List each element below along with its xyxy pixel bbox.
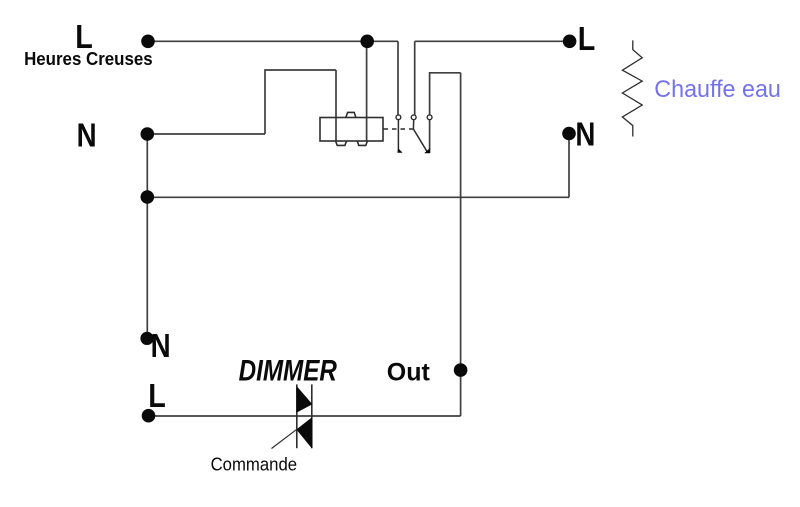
label Commande	[211, 454, 298, 475]
svg-text:Commande: Commande	[211, 454, 298, 475]
node dot L right	[563, 35, 577, 49]
relay coil bottom tab left	[336, 141, 347, 145]
label Heures Creuses	[24, 48, 153, 69]
wire Out vertical	[460, 73, 462, 416]
contact blade 2 (thrown)	[413, 120, 427, 152]
wire bottom L to triac	[149, 415, 297, 417]
label L right	[578, 20, 596, 57]
contact circle 2	[411, 115, 416, 120]
label DIMMER	[239, 354, 338, 387]
node dot Out	[454, 363, 468, 377]
svg-text:DIMMER: DIMMER	[239, 354, 338, 387]
wire contact 3 up jog	[430, 73, 461, 115]
svg-text:Chauffe eau: Chauffe eau	[654, 76, 781, 104]
triac lower triangle	[296, 417, 312, 448]
gate wire Commande	[272, 429, 297, 448]
relay coil bottom tab right	[357, 141, 367, 145]
label Chauffe eau	[654, 76, 781, 104]
node dot L top-left	[141, 35, 155, 49]
label L bottom-left	[148, 377, 166, 414]
mechanical link dashed	[384, 128, 414, 130]
wire L top-left horizontal	[148, 40, 398, 42]
label L top-left	[75, 18, 93, 55]
node dot N left	[141, 127, 155, 141]
svg-text:L: L	[578, 20, 596, 57]
wire Out bottom to triac	[297, 415, 461, 417]
relay coil K1 body	[320, 112, 383, 145]
contact blade 1	[397, 120, 399, 152]
wire coil left lead	[335, 70, 337, 141]
contact blade 1 tip	[397, 148, 402, 153]
contact circle 1	[396, 115, 401, 120]
svg-text:Out: Out	[387, 359, 431, 387]
triac left bar	[296, 384, 298, 448]
wire node to relay coil	[366, 41, 368, 141]
wire left vertical bus	[146, 134, 148, 338]
contact circle 3	[427, 115, 432, 120]
relay coil top tab	[346, 112, 356, 117]
wire N jog up	[265, 70, 336, 134]
triac upper triangle	[297, 386, 313, 413]
wire L top-right horizontal	[415, 40, 570, 42]
svg-text:N: N	[77, 117, 97, 154]
wire drop to contact 1	[397, 41, 399, 115]
wire right N vertical	[568, 134, 570, 198]
contact blade 2 tip	[424, 148, 430, 153]
wire contact 3 lower stub	[429, 120, 431, 153]
wire N left horizontal	[148, 133, 266, 135]
node dot N bottom	[140, 332, 153, 345]
triac right bar	[311, 384, 313, 448]
resistor chauffe-eau	[622, 40, 642, 136]
wire long horizontal to right N	[147, 196, 569, 198]
label N bottom-left	[151, 328, 171, 365]
label N left	[77, 117, 97, 154]
node dot N right	[562, 127, 576, 141]
svg-text:L: L	[148, 377, 166, 414]
label N right	[575, 116, 595, 153]
wire drop to contact 2	[414, 41, 416, 115]
svg-text:N: N	[575, 116, 595, 153]
svg-text:Heures Creuses: Heures Creuses	[24, 48, 153, 69]
node dot junction top	[360, 35, 374, 49]
node dot junction mid	[141, 190, 155, 204]
svg-text:N: N	[151, 328, 171, 365]
node dot L bottom	[142, 409, 156, 423]
